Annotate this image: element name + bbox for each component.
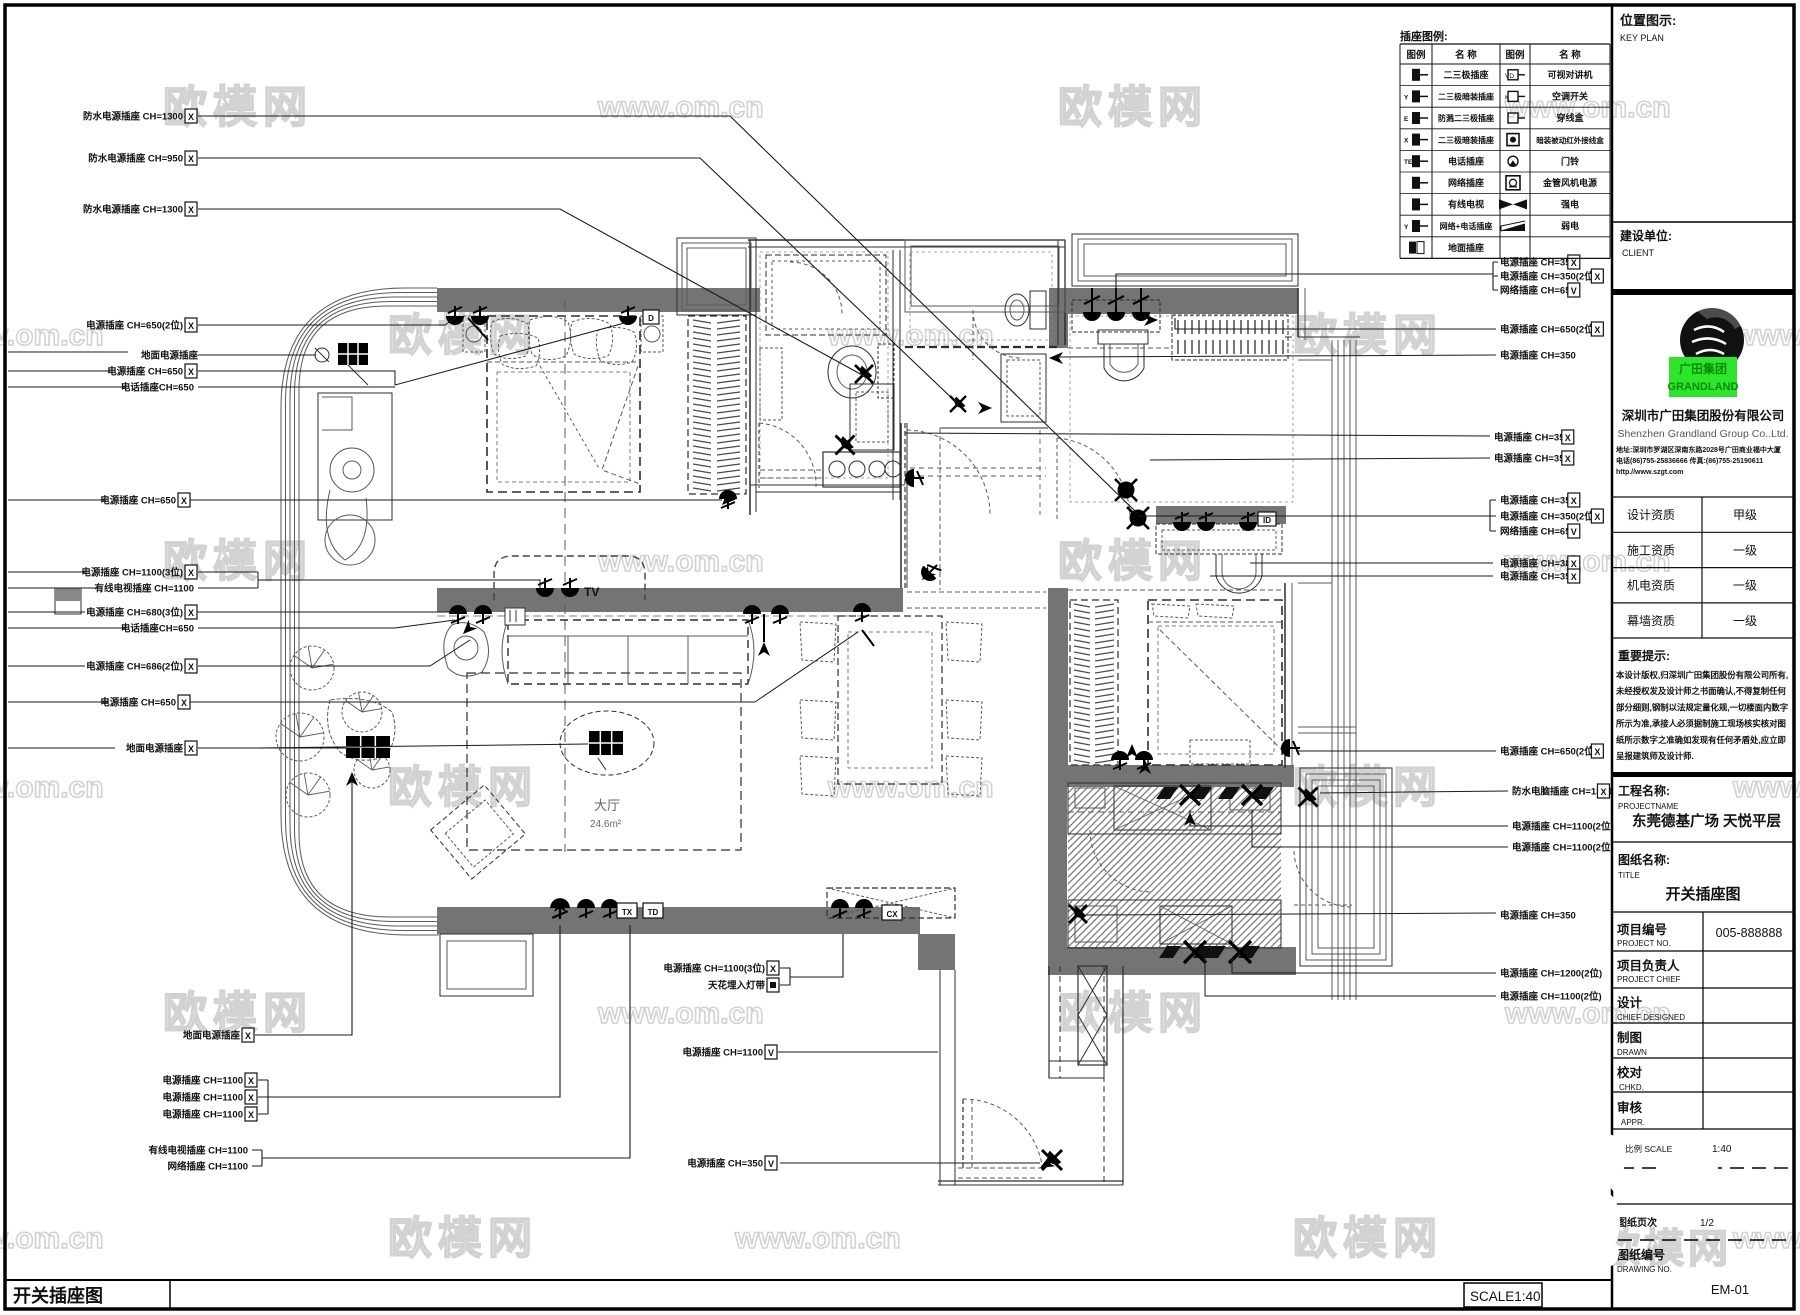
svg-text:工程名称:: 工程名称: <box>1618 783 1670 798</box>
svg-text:CHKD.: CHKD. <box>1619 1083 1644 1092</box>
wall - bath2 right wall <box>1057 240 1059 345</box>
wire - leader bath3 CH350 <box>1055 355 1496 357</box>
legend row 3 right symbol <box>1508 113 1525 123</box>
wire - leader bottom center 1100x3 + lightbelt <box>780 934 843 985</box>
svg-text:二三极插座: 二三极插座 <box>1443 69 1488 80</box>
svg-text:幕墙资质: 幕墙资质 <box>1627 614 1675 628</box>
svg-text:电源插座 CH=650(2位): 电源插座 CH=650(2位) <box>1500 746 1597 758</box>
svg-text:http.//www.szgt.com: http.//www.szgt.com <box>1616 469 1683 476</box>
wire - leader kitchen bottom sockets <box>1205 958 1496 996</box>
svg-text:深圳市广田集团股份有限公司: 深圳市广田集团股份有限公司 <box>1622 408 1785 423</box>
furniture - sofa living room <box>508 620 748 684</box>
svg-text:审核: 审核 <box>1617 1100 1643 1115</box>
svg-text:电源插座 CH=1100: 电源插座 CH=1100 <box>162 1092 243 1104</box>
svg-text:www.om.cn: www.om.cn <box>0 1222 104 1255</box>
svg-text:电话插座CH=650: 电话插座CH=650 <box>121 382 194 394</box>
svg-text:地面插座: 地面插座 <box>1448 242 1484 253</box>
svg-text:X: X <box>1571 559 1577 569</box>
svg-text:防水电源插座 CH=1300: 防水电源插座 CH=1300 <box>83 204 183 216</box>
svg-text:电源插座 CH=650: 电源插座 CH=650 <box>107 366 183 378</box>
socket bath3 right tick <box>1144 314 1158 326</box>
wire - leader bedroom1 bedside sockets diagonal <box>198 322 628 385</box>
svg-text:二三极暗装插座: 二三极暗装插座 <box>1438 92 1494 102</box>
svg-text:E: E <box>1404 116 1409 123</box>
floor socket bedroom1 <box>338 343 368 365</box>
svg-text:X: X <box>1594 325 1600 335</box>
wall - living room bottom gray bar <box>437 907 920 934</box>
svg-text:X: X <box>188 568 194 578</box>
socket bath3 left wall arrow <box>1049 352 1063 364</box>
wire - leader bedroom1 top sockets <box>198 318 455 325</box>
svg-text:甲级: 甲级 <box>1733 508 1757 522</box>
furniture - bed bedroom2 <box>1148 600 1282 765</box>
window - frame above bath2 <box>905 240 1065 312</box>
TV outlet pair above bar <box>536 578 554 597</box>
svg-text:X: X <box>1600 787 1606 797</box>
svg-text:SCALE1:40: SCALE1:40 <box>1470 1289 1541 1304</box>
window - closet frame above wardrobe <box>677 238 756 315</box>
svg-text:地面电源插座: 地面电源插座 <box>183 1030 241 1042</box>
socket pair below bedroom1 top wall <box>446 306 464 325</box>
furniture - kitchen top counter deep <box>1068 783 1281 834</box>
svg-text:一级: 一级 <box>1733 579 1757 593</box>
svg-text:电源插座 CH=350: 电源插座 CH=350 <box>1500 571 1576 583</box>
svg-text:图例: 图例 <box>1505 49 1524 61</box>
svg-text:24.6m²: 24.6m² <box>590 819 622 830</box>
fixture - vanity bath3 top <box>1072 300 1160 332</box>
svg-text:电源插座 CH=650: 电源插座 CH=650 <box>100 697 176 709</box>
sockets kitchen top counter <box>1156 785 1212 805</box>
svg-text:VD: VD <box>1505 73 1514 80</box>
wire - leader vanity2 row pair <box>1210 563 1493 576</box>
svg-text:X: X <box>1594 512 1600 522</box>
furniture - dining table <box>838 616 942 784</box>
svg-text:校对: 校对 <box>1617 1065 1643 1080</box>
wall - bath2 bottom dashed wall <box>905 346 1058 348</box>
titleblock column frame <box>1611 5 1614 1309</box>
wire - bedroom2 top edge dashed <box>1068 589 1285 591</box>
svg-text:电源插座 CH=650(2位): 电源插座 CH=650(2位) <box>86 320 183 332</box>
svg-text:www.om.cn: www.om.cn <box>597 545 764 578</box>
svg-text:电源插座 CH=686(2位): 电源插座 CH=686(2位) <box>86 661 183 673</box>
svg-text:网络插座 CH=650: 网络插座 CH=650 <box>1500 526 1576 538</box>
sockets living bottom wall cluster with TX TD boxes <box>550 898 570 919</box>
svg-text:图纸页次: 图纸页次 <box>1617 1216 1657 1229</box>
wire - leader entry door socket <box>780 1162 1040 1164</box>
svg-text:KEY PLAN: KEY PLAN <box>1620 33 1664 43</box>
svg-text:V: V <box>1571 527 1577 537</box>
sockets bath3 top three <box>1083 288 1101 321</box>
svg-text:穿线盒: 穿线盒 <box>1556 112 1584 123</box>
socket bath1 tub corner <box>855 365 873 383</box>
qualification table <box>1612 497 1794 638</box>
svg-text:电源插座 CH=1100(2位): 电源插座 CH=1100(2位) <box>1512 821 1614 833</box>
svg-text:Y: Y <box>1404 224 1409 231</box>
svg-text:有线电视: 有线电视 <box>1448 199 1484 210</box>
svg-text:欧模网: 欧模网 <box>388 1214 538 1263</box>
svg-text:X: X <box>248 1076 254 1086</box>
wall - step lines below corner block <box>939 970 941 1185</box>
door - bath1 bottom opening dashed <box>760 469 822 471</box>
wall - corridor left wall double <box>900 423 902 588</box>
svg-text:地面电源插座: 地面电源插座 <box>141 350 199 362</box>
svg-text:防溅二三极插座: 防溅二三极插座 <box>1438 113 1494 123</box>
wall - bath top exterior double line <box>748 239 1065 241</box>
svg-text:X: X <box>1571 496 1577 506</box>
svg-text:X: X <box>188 744 194 754</box>
svg-text:防水电源插座 CH=1300: 防水电源插座 CH=1300 <box>83 111 183 123</box>
svg-text:DRAWING NO.: DRAWING NO. <box>1617 1265 1672 1274</box>
fixture - vanity2 bath3 lower <box>1156 524 1282 554</box>
svg-text:广田集团: 广田集团 <box>1679 361 1727 376</box>
legend row 6 left symbol <box>1412 177 1428 189</box>
floor socket living room center <box>589 731 623 755</box>
wire - leader floor socket rock <box>198 747 346 749</box>
wire - leader tv/network bottom bracket <box>252 925 630 1166</box>
window - kitchen right balcony frames <box>1300 768 1392 966</box>
svg-text:X: X <box>1571 258 1577 268</box>
column - entry shaft X-braced <box>1078 966 1107 1065</box>
svg-text:电源插座 CH=350(2位): 电源插座 CH=350(2位) <box>1500 511 1597 523</box>
wire - bath2 dashed liner <box>910 252 1052 340</box>
sockets bedroom2 above kitchen wall <box>1111 751 1129 770</box>
legend row 4 right symbol <box>1507 134 1519 146</box>
svg-text:电源插座 CH=650(2位): 电源插座 CH=650(2位) <box>1500 324 1597 336</box>
svg-text:电源插座 CH=380: 电源插座 CH=380 <box>1500 558 1576 570</box>
door - bath3 dashed swing lower-left <box>1056 438 1058 520</box>
wall - living room top gray bar <box>437 588 903 612</box>
wall - kitchen left gray wall <box>1048 787 1067 970</box>
sockets bath3 lower vanity row <box>1173 512 1191 531</box>
svg-text:X: X <box>188 367 194 377</box>
svg-text:www.om.cn: www.om.cn <box>827 771 994 804</box>
furniture - dining chairs right column <box>946 622 982 662</box>
furniture - wardrobe bedroom2 <box>1070 600 1118 765</box>
fixture - shelf niche bath1 left <box>760 348 782 420</box>
socket bath2 vanity arrow <box>950 396 966 412</box>
svg-text:图例: 图例 <box>1406 49 1425 61</box>
svg-text:X: X <box>188 154 194 164</box>
wall - bath1/bath2 divider <box>892 250 894 500</box>
svg-text:PROJECT CHIEF: PROJECT CHIEF <box>1617 975 1681 984</box>
svg-text:PROJECT NO.: PROJECT NO. <box>1617 939 1671 948</box>
wire - leader sofa sockets 686 <box>198 640 470 666</box>
wire - bath2 lower dashed walls <box>904 423 906 590</box>
legend row 2 right symbol <box>1505 91 1525 101</box>
wall - kitchen top gray bar <box>1048 765 1294 787</box>
svg-text:网络+电话插座: 网络+电话插座 <box>1440 221 1493 231</box>
legend row 5 right symbol <box>1508 156 1518 166</box>
sockets living room top wall left pair <box>449 605 467 624</box>
sockets kitchen bottom counter <box>1159 941 1215 963</box>
svg-text:Y: Y <box>1404 94 1409 101</box>
door - bath1 dashed swing door <box>758 423 760 488</box>
fixture - bidet cabinet bath2 <box>1001 354 1046 422</box>
socket circle pair corridor right <box>1115 479 1137 501</box>
svg-text:开关插座图: 开关插座图 <box>1665 885 1740 903</box>
furniture - armchair rotated <box>431 785 526 879</box>
svg-text:CHIEF DESIGNED: CHIEF DESIGNED <box>1617 1013 1685 1022</box>
svg-text:建设单位:: 建设单位: <box>1619 228 1672 243</box>
wire - leader waterproof socket 3 <box>198 209 864 376</box>
svg-text:电源插座 CH=680(3位): 电源插座 CH=680(3位) <box>86 607 183 619</box>
furniture - stool circle <box>325 515 375 565</box>
wire - leader towel rail 650x2 <box>1175 318 1496 329</box>
wire - corridor door arc <box>907 430 990 515</box>
furniture - bedside bench bedroom2 <box>1190 740 1250 764</box>
sockets living room top wall right pair <box>743 605 761 624</box>
svg-text:设计: 设计 <box>1617 995 1643 1010</box>
svg-text:本设计版权,归深圳广田集团股份有限公司所有,: 本设计版权,归深圳广田集团股份有限公司所有, <box>1615 670 1788 680</box>
svg-text:电源插座 CH=350: 电源插座 CH=350 <box>687 1158 763 1170</box>
wire - dashed centerline vertical <box>564 300 566 852</box>
socket bedroom1 top wall right with TV box <box>619 306 637 325</box>
svg-text:电源插座 CH=1100(2位): 电源插座 CH=1100(2位) <box>1512 842 1614 854</box>
legend row 8 right symbol <box>1501 221 1525 231</box>
legend row 7 right symbol <box>1499 199 1527 209</box>
wall - bath3 right boundary <box>1297 288 1299 337</box>
svg-text:名 称: 名 称 <box>1455 49 1477 61</box>
svg-text:TX: TX <box>622 908 633 917</box>
svg-text:V: V <box>768 1159 774 1169</box>
wire - leader three 1100 sockets bracket <box>258 925 560 1114</box>
door - entry door dashed <box>962 1099 964 1170</box>
furniture - bed2 inner dashed <box>1158 626 1274 754</box>
titleblock vertical divider for rows <box>1702 912 1704 1129</box>
svg-text:项目负责人: 项目负责人 <box>1617 958 1680 973</box>
socket balcony waterproof X <box>1299 788 1318 807</box>
wire - leader waterproof computer socket <box>1320 791 1508 793</box>
svg-text:开关插座图: 开关插座图 <box>13 1285 103 1306</box>
svg-text:X: X <box>188 662 194 672</box>
svg-text:1/2: 1/2 <box>1700 1218 1714 1229</box>
wall - bedroom2/balcony divider <box>1284 583 1286 768</box>
socket bedroom1 below bed <box>719 490 737 509</box>
svg-text:X: X <box>188 321 194 331</box>
svg-text:X: X <box>1594 272 1600 282</box>
wire - leader right bath3 bundle top <box>1116 262 1498 306</box>
svg-text:K: K <box>1505 94 1510 101</box>
wire - leader waterproof socket 1 long diagonal <box>198 116 1137 513</box>
legend row 6 right symbol <box>1506 176 1520 190</box>
svg-text:X: X <box>770 964 776 974</box>
svg-text:X: X <box>181 698 187 708</box>
svg-text:X: X <box>1404 138 1409 145</box>
fixture - washlet console 4 circles bath1 <box>823 452 900 487</box>
wire - leader floor outlet bedroom1 <box>198 354 316 356</box>
svg-text:电话插座CH=650: 电话插座CH=650 <box>121 623 194 635</box>
svg-text:天花埋入灯带: 天花埋入灯带 <box>708 980 766 992</box>
svg-text:位置图示:: 位置图示: <box>1620 13 1676 28</box>
svg-text:电源插座 CH=1200(2位): 电源插座 CH=1200(2位) <box>1500 968 1602 980</box>
wall - entry corridor right wall <box>1103 966 1105 1185</box>
wire - leader tv wall sockets bracket <box>198 572 540 588</box>
door - bath2 dashed swing <box>972 310 974 360</box>
svg-text:电源插座 CH=350(2位): 电源插座 CH=350(2位) <box>1500 271 1597 283</box>
svg-text:机电资质: 机电资质 <box>1627 579 1675 593</box>
svg-text:DRAWN: DRAWN <box>1617 1048 1647 1057</box>
svg-text:门铃: 门铃 <box>1561 155 1580 166</box>
wire - leader socket below bed <box>190 499 722 501</box>
wire - left border stub lines to labels <box>8 351 128 353</box>
wire - leader living left wall sockets <box>190 611 455 613</box>
svg-text:防水电源插座 CH=950: 防水电源插座 CH=950 <box>88 153 183 165</box>
svg-text:TV: TV <box>584 585 599 599</box>
svg-text:www.om.cn: www.om.cn <box>734 1222 901 1255</box>
svg-text:插座图例:: 插座图例: <box>1400 29 1448 43</box>
logo grandland <box>1680 307 1744 372</box>
svg-text:电源插座 CH=1100: 电源插座 CH=1100 <box>162 1109 243 1121</box>
wire - leader waterproof socket 2 <box>198 158 958 404</box>
svg-text:纸所示数字之准确如发现有任何矛盾处,应立即: 纸所示数字之准确如发现有任何矛盾处,应立即 <box>1616 735 1786 745</box>
svg-text:电源插座 CH=1100(3位): 电源插座 CH=1100(3位) <box>81 567 183 579</box>
fixture - toilet bath3 <box>1098 330 1148 344</box>
svg-text:二三极暗装插座: 二三极暗装插座 <box>1438 135 1494 145</box>
svg-text:www.om.cn: www.om.cn <box>0 771 104 804</box>
wall - bath1 bottom wall <box>750 484 905 486</box>
socket bedroom2 right balcony wall <box>1281 739 1300 757</box>
furniture - coffee table oval <box>560 711 654 775</box>
legend row 1 right symbol <box>1505 70 1525 80</box>
socket corridor lower <box>917 559 943 585</box>
wire - leader telephone living <box>198 620 455 628</box>
socket entry door <box>1042 1150 1062 1170</box>
svg-text:X: X <box>248 1093 254 1103</box>
svg-text:Shenzhen Grandland Group Co..L: Shenzhen Grandland Group Co..Ltd. <box>1617 428 1788 440</box>
wire - leader bedroom2 socket 650x2 <box>1296 750 1496 752</box>
svg-text:电源插座 CH=350: 电源插座 CH=350 <box>1500 495 1576 507</box>
window - frame top-right above bath3 <box>1072 234 1298 286</box>
wire - leader corridor socket 350 <box>905 433 1490 436</box>
furniture - dining table inner dashed <box>848 632 932 768</box>
wire - bath3 dashed liner <box>1070 316 1293 502</box>
svg-text:www.om.cn: www.om.cn <box>597 91 764 124</box>
furniture - wardrobe bedroom1 with hanging clothes <box>688 316 746 494</box>
fixture - vanity bath1 <box>850 384 894 450</box>
wire - corridor opening dashed between living and kitchen <box>907 591 1046 593</box>
bottom strip line <box>5 1279 1612 1281</box>
svg-text:X: X <box>188 608 194 618</box>
wall - entry ledge <box>1049 1061 1104 1078</box>
wire - leader floor socket bottom label <box>255 776 352 1035</box>
wire - leader circle sockets bundle <box>1138 500 1496 531</box>
svg-text:X: X <box>188 112 194 122</box>
wire - bath1 interior dashed liner <box>760 252 888 478</box>
wall - entry left gray stub <box>920 951 952 967</box>
svg-text:电源插座 CH=350: 电源插座 CH=350 <box>1494 432 1570 444</box>
wall - bottom bar corner step block <box>918 934 955 970</box>
svg-text:欧模网: 欧模网 <box>1058 83 1208 132</box>
svg-text:欧模网: 欧模网 <box>1058 537 1208 586</box>
wire - leader kitchen top sockets 1100 <box>1190 810 1508 847</box>
legend row 1 left symbol <box>1412 69 1428 81</box>
svg-text:项目编号: 项目编号 <box>1617 922 1667 937</box>
svg-text:X: X <box>248 1110 254 1120</box>
furniture - bedside table left <box>463 316 485 352</box>
svg-text:V: V <box>768 1048 774 1058</box>
wall - bath3 top gray bar <box>1049 288 1298 314</box>
svg-text:ID: ID <box>1263 516 1271 525</box>
svg-text:TD: TD <box>648 908 659 917</box>
svg-text:X: X <box>188 205 194 215</box>
svg-text:一级: 一级 <box>1733 543 1757 557</box>
furniture - desk chair <box>326 490 367 560</box>
svg-text:金管风机电源: 金管风机电源 <box>1542 177 1597 188</box>
fixture - toilet bath1 facing left <box>878 344 894 398</box>
furniture - rug living room dashed <box>467 673 741 850</box>
furniture - desk bedroom1 <box>318 393 392 520</box>
svg-text:地址:深圳市罗湖区深南东路2028号广田商业福中大厦: 地址:深圳市罗湖区深南东路2028号广田商业福中大厦 <box>1616 445 1782 454</box>
svg-text:www.om.cn: www.om.cn <box>1732 1222 1800 1255</box>
svg-text:X: X <box>1565 433 1571 443</box>
svg-text:制图: 制图 <box>1617 1030 1642 1045</box>
svg-text:GRANDLAND: GRANDLAND <box>1668 381 1739 393</box>
fixture - toilet2 bath3 <box>1216 554 1262 593</box>
svg-text:电源插座 CH=350: 电源插座 CH=350 <box>1494 453 1570 465</box>
wall - bath1/bedroom divider <box>749 240 751 515</box>
svg-text:电源插座 CH=350: 电源插座 CH=350 <box>1500 910 1576 922</box>
svg-text:网络插座: 网络插座 <box>1448 177 1484 188</box>
svg-text:X: X <box>245 1031 251 1041</box>
floor hatch - kitchen diagonal <box>857 783 1589 948</box>
window - below bottom bar living <box>440 934 533 996</box>
svg-text:电源插座 CH=1100(3位): 电源插座 CH=1100(3位) <box>663 963 765 975</box>
wall - kitchen bottom gray bar <box>1048 947 1296 975</box>
svg-text:X: X <box>1571 572 1577 582</box>
svg-text:施工资质: 施工资质 <box>1627 543 1675 557</box>
legend row 9 left symbol <box>1409 242 1416 254</box>
wire - leader socket 650 sofa <box>190 632 858 702</box>
wall - bath3 mid dashed <box>1068 347 1172 349</box>
svg-text:图纸名称:: 图纸名称: <box>1618 852 1670 867</box>
svg-text:005-888888: 005-888888 <box>1716 926 1783 940</box>
svg-text:有线电视插座 CH=1100: 有线电视插座 CH=1100 <box>94 583 194 595</box>
svg-text:大厅: 大厅 <box>594 798 620 813</box>
svg-text:欧模网: 欧模网 <box>388 763 538 812</box>
svg-text:一级: 一级 <box>1733 614 1757 628</box>
socket kitchen bottom-left X <box>1069 905 1087 923</box>
svg-text:电源插座 CH=1100(2位): 电源插座 CH=1100(2位) <box>1500 991 1602 1003</box>
wall - entry corridor left wall <box>1048 966 1050 1078</box>
svg-text:电源插座 CH=350: 电源插座 CH=350 <box>1500 350 1576 362</box>
logo green company name <box>1669 357 1737 397</box>
svg-text:弱电: 弱电 <box>1561 220 1579 231</box>
wire - tv cabinet line below bar <box>437 615 900 617</box>
svg-text:X: X <box>1594 747 1600 757</box>
plan group <box>8 109 1614 1185</box>
white erase blobs over titleblock bottom-left <box>1588 1134 1718 1267</box>
wire - leader kitchen bottom-left 350 <box>1086 913 1496 915</box>
wall - bath3 lower small gray bar <box>1156 506 1286 524</box>
svg-text:EM-01: EM-01 <box>1711 1282 1749 1297</box>
svg-text:部分细则,钢制以法规定量化规,一切楼面内数字: 部分细则,钢制以法规定量化规,一切楼面内数字 <box>1616 702 1788 712</box>
fixture - towel radiator bath3 <box>1172 315 1288 360</box>
wall - entry bottom wall <box>938 1180 1123 1182</box>
svg-text:可视对讲机: 可视对讲机 <box>1547 69 1592 80</box>
fixture - shower enclosure bath1 <box>766 255 886 335</box>
svg-text:地面电源插座: 地面电源插座 <box>126 743 184 755</box>
svg-text:重要提示:: 重要提示: <box>1618 648 1670 663</box>
svg-text:CLIENT: CLIENT <box>1622 248 1655 258</box>
furniture - bedside table right <box>641 316 663 352</box>
svg-text:网络插座 CH=1100: 网络插座 CH=1100 <box>167 1161 248 1173</box>
furniture - rock feature with floor sockets <box>328 699 395 761</box>
legend row 7 left symbol <box>1412 198 1428 210</box>
wire - corridor dashed rails <box>910 467 1046 469</box>
svg-text:APPR.: APPR. <box>1621 1118 1645 1127</box>
furniture - plants left <box>290 646 334 690</box>
socket corridor upper <box>905 469 924 487</box>
